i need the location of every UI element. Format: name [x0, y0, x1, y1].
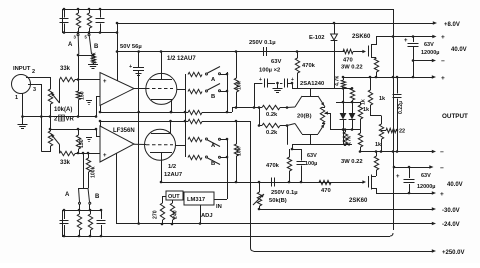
svg-text:+250.0V: +250.0V [442, 250, 465, 256]
capacitor 12000u 63V (bottom) [394, 167, 430, 169]
rail: shared bus 1 [100, 112, 188, 114]
svg-text:1k: 1k [363, 107, 370, 113]
resistor row A upper + switch A [188, 72, 202, 76]
resistor row B lower + switch [188, 155, 202, 159]
resistor row B upper + switch B [188, 89, 202, 93]
svg-text:ADJ: ADJ [201, 213, 213, 219]
resistor 150 (upper) [78, 55, 80, 91]
rail: -24.0V [116, 223, 432, 225]
svg-text:OUTPUT: OUTPUT [442, 113, 468, 120]
wire: lower drain to minus-rail [371, 189, 377, 194]
svg-text:33k: 33k [60, 160, 71, 166]
resistor 100k (switch B) [91, 55, 95, 63]
svg-text:0.22µ: 0.22µ [398, 101, 404, 114]
grid V1 (dashed) [146, 88, 173, 90]
svg-text:2SK60: 2SK60 [349, 198, 368, 204]
wire: cap bottom terminal line [412, 60, 432, 62]
wire: tube2 to ladder [176, 145, 186, 147]
wire: bar to diode bus [343, 88, 345, 102]
resistor 470k (upper grid leak) [297, 52, 299, 59]
switch SW-A bottom [79, 188, 80, 202]
svg-text:−: − [440, 149, 444, 156]
svg-text:1k: 1k [379, 96, 386, 102]
svg-text:A: A [211, 77, 216, 83]
svg-text:2: 2 [32, 69, 35, 75]
svg-text:12000µ: 12000µ [421, 50, 439, 56]
wire: switch junction bar [78, 55, 93, 57]
wire: op-amp2 out to tube2 grid [134, 143, 146, 145]
svg-text:250V 0.1µ: 250V 0.1µ [271, 190, 298, 196]
resistor 4.7k (upper left) [343, 77, 345, 80]
svg-text:63V: 63V [271, 59, 281, 65]
resistor 1k col x370 [370, 77, 372, 90]
wire: top feedback rail [62, 9, 393, 11]
resistor 270 [162, 196, 164, 203]
potentiometer 10k(A) gang 2 [48, 131, 52, 146]
wire: ladder left rail [185, 74, 187, 157]
capacitor (top-left cluster left) [64, 9, 66, 18]
wire: minus-rail to terminal [376, 193, 432, 195]
wire: jog to 0.2k row1 [232, 108, 234, 113]
wire: pot2 wiper down [59, 145, 61, 154]
wire: lower return line [50, 129, 96, 131]
wire: pot wiper down [330, 113, 332, 130]
svg-text:0.2k: 0.2k [266, 130, 278, 136]
svg-text:0.2k: 0.2k [266, 112, 278, 118]
plate V1 [150, 79, 172, 81]
wire: diode top bus [336, 102, 360, 104]
svg-text:63V: 63V [421, 173, 431, 179]
wire: shield riser to op-amp1 -input [96, 96, 98, 117]
svg-text:100k: 100k [91, 166, 97, 178]
svg-text:-30.0V: -30.0V [442, 208, 460, 214]
cathode V2 [151, 133, 171, 135]
resistor (top-left cluster 1) [78, 9, 80, 13]
svg-text:+: + [441, 75, 445, 82]
wire: mid vertical x=259 [259, 108, 261, 126]
svg-text:+: + [291, 77, 294, 83]
svg-text:240: 240 [173, 210, 179, 219]
svg-text:+: + [259, 77, 262, 83]
resistor 470 (upper gate) [343, 49, 353, 53]
svg-text:A: A [68, 42, 73, 48]
wire: lower switch junction bar [79, 188, 89, 190]
resistor (bottom cluster 2) [90, 210, 92, 214]
wire: Q2 emitter to pot bottom [322, 123, 325, 125]
wire: ladder right rail upper [227, 72, 229, 112]
resistor 0.2k lower [259, 125, 262, 127]
ground (op-amp2 -input) [86, 137, 92, 139]
svg-text:E-102: E-102 [309, 35, 324, 41]
svg-text:2: 2 [54, 117, 58, 123]
svg-text:150: 150 [79, 139, 85, 148]
svg-text:3: 3 [74, 35, 77, 40]
rail: +40V top, to terminal [376, 36, 433, 38]
wire: -24V rail up to op-amp2 V- [116, 154, 118, 224]
ground (100u x2) [277, 83, 279, 88]
wire: jack shield to pot returns [23, 116, 97, 118]
svg-text:250V 0.1µ: 250V 0.1µ [249, 40, 276, 46]
svg-text:10k(A): 10k(A) [54, 107, 72, 113]
tube V2 1/2 12AU7 (lower) [145, 129, 176, 160]
svg-text:22: 22 [399, 129, 405, 135]
svg-text:+: + [441, 34, 445, 41]
svg-text:+: + [129, 64, 132, 70]
rail: +250.0V [254, 251, 433, 253]
diode D2 [352, 102, 354, 113]
svg-text:−: − [440, 165, 444, 172]
svg-text:63V: 63V [424, 42, 434, 48]
label +8.0V [433, 21, 437, 24]
rail: shared bus 2 [100, 121, 188, 123]
resistor 150 (lower) [78, 129, 80, 135]
switch SW-A top (NFB select) [78, 33, 80, 34]
svg-text:4.7k: 4.7k [347, 136, 353, 146]
svg-text:20(B): 20(B) [297, 114, 312, 120]
svg-text:10k: 10k [237, 147, 243, 156]
svg-text:100k: 100k [92, 52, 98, 64]
ground (op-amp1 -input) [86, 100, 92, 102]
svg-text:470: 470 [321, 188, 331, 194]
wire: Q2 base bar [292, 144, 352, 146]
regulator LM317 [184, 192, 214, 205]
svg-text:12000µ: 12000µ [417, 184, 435, 190]
rail: output minus line y=151.5 [360, 151, 432, 153]
grid V2 (dashed) [146, 144, 173, 146]
svg-text:B: B [211, 161, 215, 167]
svg-text:63V: 63V [307, 153, 317, 159]
wire: OUT to resistors [162, 196, 166, 198]
svg-text:LM317: LM317 [187, 197, 205, 203]
svg-text:40.0V: 40.0V [447, 182, 463, 188]
capacitor (bottom cluster right) [101, 210, 103, 219]
resistor row A lower + switch [188, 137, 202, 141]
switch SW-B bottom [88, 188, 90, 202]
resistor 240 [172, 200, 174, 203]
svg-text:B: B [211, 94, 215, 100]
svg-text:470k: 470k [302, 63, 316, 69]
resistor 100k (lower) [88, 153, 90, 158]
ground (100k upper) [88, 64, 98, 66]
wire: cluster bus to feedback node [100, 32, 117, 34]
wire: output bus vertical right side [393, 9, 395, 230]
svg-text:VR: VR [66, 117, 75, 123]
svg-text:50k(B): 50k(B) [269, 198, 287, 204]
wire: cap line left end down [254, 83, 256, 108]
svg-text:+: + [103, 153, 107, 159]
wire: Q1 left leg to row [287, 106, 295, 109]
svg-text:10k: 10k [237, 81, 243, 90]
resistor 10k (lower) [236, 121, 238, 144]
resistor 4.7k (lower) [345, 130, 347, 133]
resistor (top-left cluster 2) [89, 9, 91, 13]
wire: op-amp2 top corner to rail [100, 121, 102, 126]
rail: plate supply line y=51.5 [117, 51, 344, 53]
svg-text:IN: IN [216, 204, 222, 210]
wire: op-amp1 out to tube grid [134, 88, 146, 90]
wire: bar to grid-leak node [292, 145, 294, 149]
plate V2 [150, 152, 172, 154]
wire: rail to +8.0V measure [117, 23, 434, 25]
svg-text:−: − [441, 58, 445, 65]
pin 2 [26, 77, 50, 79]
rail: lower plate line y=182 [161, 182, 344, 184]
wire: caps node to base bar [292, 83, 294, 88]
wire: plate supply vertical to +250V [250, 121, 252, 248]
cathode V1 [151, 99, 171, 101]
svg-text:B: B [95, 194, 100, 200]
wire: ADJ pin [200, 205, 202, 224]
pin 1 [22, 93, 24, 125]
wire: pot2 bottom return [41, 146, 50, 152]
svg-text:12AU7: 12AU7 [164, 172, 182, 178]
wire: pot1 wiper up [59, 80, 61, 104]
switch SW-B top (NFB select) [89, 33, 91, 34]
svg-text:2SA1240: 2SA1240 [300, 81, 324, 87]
svg-text:270: 270 [153, 210, 159, 219]
capacitor (bottom cluster left) [64, 210, 66, 219]
wire: IN pin [214, 199, 227, 201]
svg-text:2SK60: 2SK60 [352, 34, 371, 40]
svg-text:+: + [103, 79, 107, 85]
svg-text:1/2 12AU7: 1/2 12AU7 [167, 56, 196, 62]
svg-text:40.0V: 40.0V [451, 47, 467, 53]
svg-text:INPUT: INPUT [13, 66, 31, 72]
resistor 10k (upper) [236, 52, 238, 79]
resistor 470 (lower gate) [319, 180, 331, 184]
wire: drain up to +40 rail [371, 37, 377, 45]
wire: Q2 left leg to row [287, 124, 295, 126]
svg-text:-24.0V: -24.0V [442, 222, 460, 228]
junction dots misc [116, 22, 119, 25]
transistor Q2 2SA1240 (lower) [302, 134, 318, 136]
svg-text:100µ: 100µ [305, 161, 317, 167]
svg-text:+: + [440, 191, 444, 198]
svg-text:OUT: OUT [168, 194, 180, 200]
potentiometer 10k(A) gang 1 [48, 89, 52, 104]
svg-text:3: 3 [33, 87, 36, 93]
resistor 1k (lower) [360, 130, 362, 134]
wire: -input op-amp2 [96, 136, 100, 138]
wire: gate lead with arrow [353, 51, 363, 53]
svg-text:100µ ×2: 100µ ×2 [259, 68, 280, 74]
svg-text:5: 5 [85, 35, 88, 40]
resistor 1k (bias right) [360, 102, 362, 105]
wire: diode bottom bus [330, 129, 360, 131]
svg-text:+8.0V: +8.0V [444, 22, 460, 28]
svg-text:50V 56µ: 50V 56µ [120, 44, 142, 50]
wire: riser to op-amp2 -input [96, 129, 98, 137]
wire: tube1 to ladder [177, 89, 185, 91]
wire: Q1 base bar [292, 88, 352, 90]
resistor 1k col x381 [381, 116, 383, 125]
rail: bottom feedback/output bus [62, 236, 390, 238]
resistor (upper, second) [350, 88, 354, 100]
op-amp U1 triangle [100, 73, 134, 106]
ground (input) [18, 124, 28, 126]
svg-text:LF356N: LF356N [113, 128, 135, 134]
resistor 0.2k upper [262, 105, 280, 109]
wire: dropper continues to -24V rail [138, 71, 140, 224]
resistor (bottom cluster 1) [79, 210, 81, 214]
capacitor 0.22u [397, 77, 399, 94]
wire: row2 node down to grid-leak bar [287, 126, 289, 145]
wire: op-amp1 bottom corner to rail [100, 106, 102, 113]
svg-text:+: + [404, 38, 408, 44]
wire: top cluster bottom bus [62, 32, 100, 34]
svg-text:1: 1 [15, 95, 18, 101]
svg-text:1/2: 1/2 [168, 164, 176, 170]
svg-text:A: A [65, 192, 70, 198]
wire: cap node down to output+ [413, 61, 415, 78]
capacitor (top-left cluster right) [100, 9, 102, 18]
svg-text:33k: 33k [60, 66, 71, 72]
svg-text:+: + [396, 174, 400, 180]
svg-text:4.7k: 4.7k [335, 76, 341, 86]
rail: output plus line y=77 [343, 77, 432, 79]
svg-text:B: B [94, 44, 99, 50]
rail: -30.0V [259, 209, 432, 211]
wire: pin2 down feed [50, 77, 52, 89]
svg-text:1k: 1k [361, 99, 367, 105]
svg-text:470: 470 [343, 58, 353, 64]
wire: bar to diode bus [343, 130, 345, 145]
wire: -input op-amp1 [96, 96, 100, 98]
svg-text:470k: 470k [266, 163, 280, 169]
wire: Q1 emitter to pot [322, 107, 325, 109]
wire: pot1 bottom down column [50, 104, 52, 131]
svg-text:3W 0.22: 3W 0.22 [341, 159, 363, 165]
diode D1 [343, 102, 345, 113]
wire: vertical feedback node x117 [117, 23, 119, 81]
capacitor 12000u 63V (top) [412, 35, 415, 38]
wire: ladder right rail lower / LM317 IN feed [227, 139, 229, 199]
wire: to op-amp1 +input [75, 79, 100, 81]
pin 3 [28, 85, 42, 152]
svg-text:150: 150 [80, 91, 86, 100]
bottom-left cluster [62, 210, 101, 212]
svg-text:3W 0.22: 3W 0.22 [341, 65, 363, 71]
